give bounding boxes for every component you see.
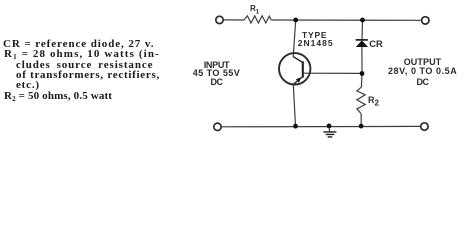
ground bars — [323, 132, 336, 137]
wire node to R2 — [360, 73, 363, 87]
diode CR cathode bar — [356, 39, 368, 41]
label 45 TO 55V — [192, 69, 241, 78]
label OUTPUT — [388, 58, 457, 67]
legend text line 2 — [4, 49, 160, 60]
label R2 — [368, 96, 379, 108]
legend text line 3 — [16, 60, 153, 71]
diode CR triangle — [356, 40, 368, 47]
wire bottom rail — [221, 125, 420, 127]
wire collector vertical — [293, 20, 296, 57]
label INPUT — [192, 61, 241, 70]
wire CR to base node — [361, 47, 363, 73]
node junction base-CR — [360, 71, 365, 76]
transistor Q1 emitter arrow — [296, 77, 301, 82]
resistor R1 — [244, 16, 271, 23]
node junction CR top — [360, 18, 365, 23]
wire top rail left — [224, 19, 244, 21]
ground stub — [328, 126, 331, 132]
label DC (input) — [192, 78, 241, 87]
transistor Q1 emitter diagonal — [293, 77, 303, 85]
legend text line 1 — [3, 39, 154, 50]
node junction collector top — [293, 18, 298, 23]
legend text line 5 — [16, 80, 40, 91]
resistor R2 — [357, 87, 365, 114]
terminal output bottom — [421, 123, 428, 130]
legend text line 4 — [16, 70, 160, 81]
transistor Q1 collector diagonal — [293, 57, 303, 63]
wire CR top — [361, 20, 364, 40]
label R1 — [250, 4, 259, 18]
label 28V, 0 TO 0.5A — [388, 67, 457, 76]
transistor Q1 body — [279, 53, 310, 84]
terminal input bottom — [214, 123, 221, 130]
legend text line 6 — [4, 91, 112, 102]
wire top rail right — [271, 19, 421, 21]
transistor Q1 base bar — [302, 61, 304, 77]
wire emitter vertical — [293, 84, 295, 126]
label DC (output) — [388, 78, 457, 87]
node junction emitter bottom — [293, 124, 298, 129]
wire base horizontal — [303, 72, 362, 74]
label TYPE — [302, 31, 327, 40]
terminal output top — [422, 17, 429, 24]
wire R2 bottom — [360, 114, 362, 126]
terminal input top — [216, 16, 223, 23]
label CR — [369, 40, 382, 49]
node junction ground — [327, 124, 332, 129]
label 2N1485 — [298, 39, 334, 48]
node junction R2 bottom — [359, 124, 364, 129]
